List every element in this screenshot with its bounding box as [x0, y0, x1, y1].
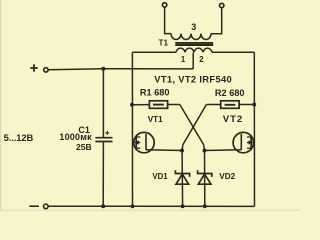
- svg-text:5...12В: 5...12В: [4, 132, 34, 143]
- svg-text:R1 680: R1 680: [140, 87, 170, 97]
- terminal OUT-right: [220, 3, 224, 7]
- transistor VT2: [233, 132, 253, 152]
- svg-text:VT1, VT2 IRF540: VT1, VT2 IRF540: [154, 74, 232, 85]
- wire VT1 source lead to node A: [146, 149, 182, 152]
- wire cross-coupling R2 to VT1 gate: [182, 105, 206, 151]
- T1 core: [175, 42, 213, 44]
- svg-text:VT1: VT1: [148, 115, 163, 124]
- terminal +: [44, 68, 48, 72]
- svg-text:1000мк: 1000мк: [59, 132, 92, 142]
- terminal minus: [44, 204, 49, 209]
- wire R1 left lead: [132, 104, 149, 106]
- wire secondary right lead: [211, 8, 222, 34]
- wire right rail (pin2 / VT2 drain-source): [253, 52, 255, 206]
- minus sign: [29, 205, 39, 207]
- svg-text:T1: T1: [159, 39, 169, 48]
- wire cross-coupling R1 to VT2 gate: [180, 105, 205, 151]
- wire R1 right lead: [168, 104, 180, 106]
- svg-text:1: 1: [181, 55, 186, 64]
- wire ground rail: [49, 205, 255, 207]
- node C1 bottom junction: [101, 204, 105, 208]
- wire VD1 branch (node A to ground rail): [181, 151, 184, 207]
- resistor R1: [149, 101, 167, 109]
- capacitor C1: [95, 137, 112, 139]
- svg-text:R2 680: R2 680: [215, 88, 245, 98]
- resistor R2: [221, 101, 239, 109]
- node VT1 source bottom junction: [131, 204, 135, 208]
- wire VD2 branch (node B to ground rail): [204, 151, 206, 207]
- winding 1-2 (T1 primary): [176, 48, 212, 52]
- node VD2 bottom junction: [203, 204, 207, 208]
- wire + rail: [48, 69, 193, 70]
- svg-text:VD1: VD1: [152, 172, 168, 181]
- diode VD2 (zener): [198, 170, 212, 184]
- wire secondary left lead: [165, 7, 171, 34]
- wire R2 left lead: [206, 104, 220, 106]
- svg-text:3: 3: [191, 22, 196, 32]
- node R1 left junction: [130, 103, 134, 107]
- node A (VT1 gate / VD1 / coupling): [180, 149, 184, 153]
- svg-text:25В: 25В: [76, 142, 92, 152]
- diode VD1 (zener): [175, 170, 189, 184]
- wire primary pin2 to right rail: [212, 51, 254, 53]
- svg-text:VD2: VD2: [219, 172, 235, 181]
- node R2 right junction: [252, 103, 256, 107]
- node C1 top junction: [101, 67, 105, 71]
- wire primary pin1 to left rail: [132, 51, 176, 53]
- node B (VT2 gate / VD2 / coupling): [203, 149, 207, 153]
- plus sign: [30, 64, 37, 71]
- svg-text:VT2: VT2: [223, 114, 243, 125]
- wire center tap: [192, 53, 194, 69]
- wire VT2 source lead to node B: [205, 149, 242, 152]
- wire R2 right lead: [239, 104, 254, 106]
- transistor VT1: [134, 132, 154, 152]
- wire left rail (pin1 / VT1 drain-source): [131, 52, 133, 206]
- svg-text:2: 2: [199, 55, 204, 64]
- terminal OUT-left: [162, 3, 166, 7]
- wire C1 lower lead: [102, 142, 104, 206]
- wire C1 upper lead: [102, 69, 104, 137]
- winding 3 (T1 secondary): [171, 34, 211, 40]
- node VD1 bottom junction: [181, 204, 185, 208]
